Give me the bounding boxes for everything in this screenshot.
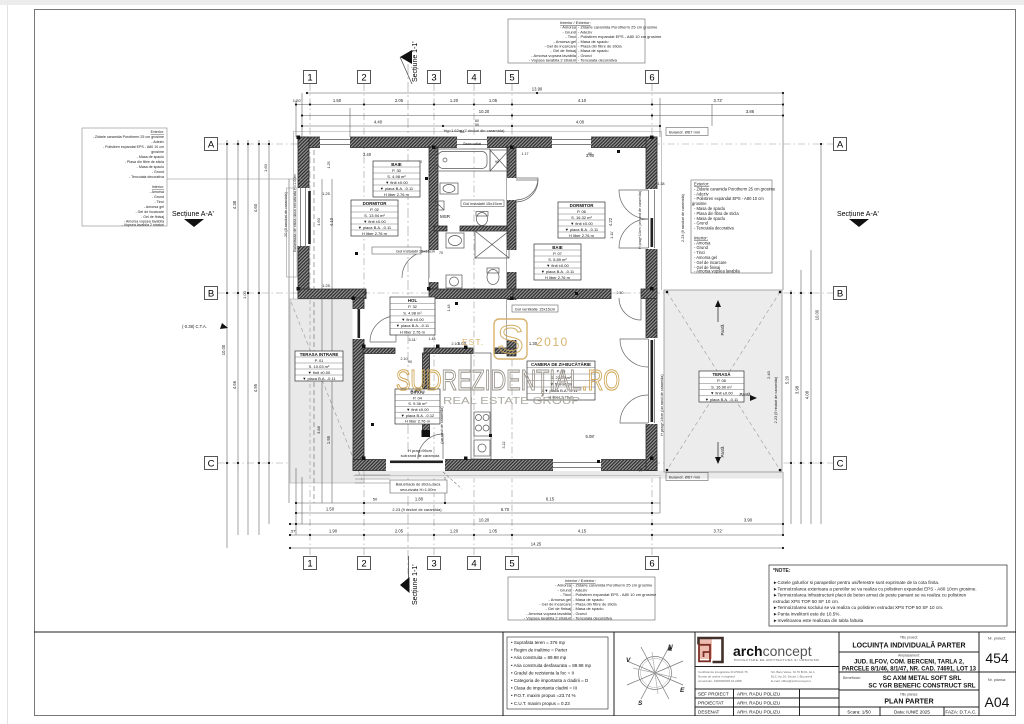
svg-text:3.40: 3.40 <box>363 152 372 157</box>
svg-text:S. 5.89 m²: S. 5.89 m² <box>548 257 567 262</box>
svg-text:ARH. RADU POLIZU: ARH. RADU POLIZU <box>737 692 780 697</box>
svg-text:• C.U.T. maxim propus = 0.23: • C.U.T. maxim propus = 0.23 <box>511 701 570 706</box>
svg-text:- Plasa din fibre de sticla: - Plasa din fibre de sticla <box>125 160 164 164</box>
svg-text:S: S <box>638 700 643 707</box>
svg-text:Data: IUNIE 2025: Data: IUNIE 2025 <box>894 710 930 715</box>
svg-text:EST.: EST. <box>462 337 484 347</box>
svg-text:10.20: 10.20 <box>479 518 490 523</box>
svg-text:▼ finit ±0.00: ▼ finit ±0.00 <box>308 370 331 375</box>
svg-text:1.48: 1.48 <box>429 337 436 341</box>
svg-text:1.17: 1.17 <box>522 152 529 156</box>
svg-text:- Gel de finisaj: - Gel de finisaj <box>141 215 164 219</box>
svg-text:Certificat de inregistrare IF1: Certificat de inregistrare IF170944 76 <box>698 670 748 674</box>
svg-text:V: V <box>626 657 631 664</box>
svg-text:1.05: 1.05 <box>489 529 498 534</box>
svg-text:JUD. ILFOV, COM. BERCENI, TARL: JUD. ILFOV, COM. BERCENI, TARLA 2, <box>854 660 964 666</box>
svg-text:BAIE: BAIE <box>391 162 402 167</box>
svg-text:2.05: 2.05 <box>395 529 404 534</box>
svg-text:S. 16.90 m²: S. 16.90 m² <box>711 384 732 389</box>
svg-text:4.38: 4.38 <box>232 200 237 209</box>
svg-text:14.25: 14.25 <box>531 542 542 547</box>
svg-text:S. 16.32 m²: S. 16.32 m² <box>571 215 592 220</box>
svg-text:S. 4.98 m²: S. 4.98 m² <box>387 174 406 179</box>
svg-text:4.10: 4.10 <box>329 217 334 226</box>
svg-text:- Zidarie caramida Porotherm 2: - Zidarie caramida Porotherm 25 cm grosi… <box>93 135 164 139</box>
svg-text:1.50: 1.50 <box>326 507 335 512</box>
svg-text:▼ placa B.A. -0.11: ▼ placa B.A. -0.11 <box>541 269 575 274</box>
svg-text:▼ finit ±0.00: ▼ finit ±0.00 <box>546 263 569 268</box>
svg-text:Secțiune 1-1': Secțiune 1-1' <box>412 41 419 82</box>
svg-text:80: 80 <box>588 152 592 156</box>
svg-text:S. 4.98 m²: S. 4.98 m² <box>403 311 422 316</box>
svg-text:DORMITOR: DORMITOR <box>570 203 595 208</box>
svg-text:- Tencuiala decorativa: - Tencuiala decorativa <box>694 226 734 231</box>
svg-text:4.95: 4.95 <box>253 383 258 392</box>
svg-text:P. 07: P. 07 <box>553 251 563 256</box>
svg-text:1.50: 1.50 <box>333 98 342 103</box>
svg-text:Gol ventilatie 15x15cm: Gol ventilatie 15x15cm <box>515 307 556 312</box>
svg-text:ARH. RADU POLIZU: ARH. RADU POLIZU <box>737 710 780 715</box>
svg-text:A: A <box>208 140 215 151</box>
svg-text:1.20: 1.20 <box>450 529 459 534</box>
svg-text:P. 01: P. 01 <box>315 358 325 363</box>
svg-text:50: 50 <box>373 497 378 502</box>
svg-text:comertului: J40/8409/06.16.2: comertului: J40/8409/06.16.2008 <box>698 679 742 683</box>
svg-text:PLAN PARTER: PLAN PARTER <box>884 699 933 706</box>
svg-text:PROIECTARE DE ARHITECTURA S: PROIECTARE DE ARHITECTURA SI URBANISM <box>734 658 819 662</box>
svg-text:Geam sablat: Geam sablat <box>463 142 481 146</box>
svg-text:2.23 (9 rinduri de caramida): 2.23 (9 rinduri de caramida) <box>392 507 442 512</box>
svg-text:5: 5 <box>509 73 514 84</box>
svg-text:MSR: MSR <box>440 214 451 219</box>
svg-text:2.10: 2.10 <box>401 357 408 361</box>
svg-text:PARCELE 8/1/46, 8/1/47, NR. CA: PARCELE 8/1/46, 8/1/47, NR. CAD. 74691, … <box>842 667 977 673</box>
svg-text:4.60: 4.60 <box>253 203 258 212</box>
svg-text:- Amorsa: - Amorsa <box>150 190 164 194</box>
svg-text:- Tencuiala decorativa: - Tencuiala decorativa <box>573 616 613 621</box>
svg-text:►Invelitoarea este realizata d: ►Invelitoarea este realizata din tabla f… <box>773 618 864 623</box>
svg-text:1.11': 1.11' <box>610 231 614 239</box>
svg-text:E-mail: office@archconcept.r: E-mail: office@archconcept.ro <box>771 679 812 683</box>
svg-text:H liber 2.76 m: H liber 2.76 m <box>569 233 595 238</box>
svg-text:sub rand de caramida: sub rand de caramida <box>401 453 440 458</box>
svg-text:- Amorsa gel: - Amorsa gel <box>144 205 164 209</box>
svg-text:1.25: 1.25 <box>322 283 331 288</box>
svg-text:A: A <box>837 140 844 151</box>
svg-text:5: 5 <box>509 559 514 570</box>
svg-text:▼ placa B.A. -0.12: ▼ placa B.A. -0.12 <box>401 413 435 418</box>
svg-text:S. 10.03 m²: S. 10.03 m² <box>309 364 330 369</box>
svg-text:▼ finit ±0.00: ▼ finit ±0.00 <box>385 180 408 185</box>
svg-text:►Panta invelitorii este de 10.: ►Panta invelitorii este de 10.5%. <box>773 612 841 617</box>
svg-text:10.00: 10.00 <box>815 309 820 320</box>
svg-text:H liber 2.76 m: H liber 2.76 m <box>384 192 410 197</box>
svg-text:- Grund: - Grund <box>152 170 164 174</box>
svg-text:10.00: 10.00 <box>221 344 226 355</box>
svg-text:▼ placa B.A. -0.11: ▼ placa B.A. -0.11 <box>380 186 414 191</box>
svg-text:A04: A04 <box>985 694 1010 710</box>
svg-text:90: 90 <box>495 160 499 164</box>
svg-text:P. 30: P. 30 <box>392 168 402 173</box>
svg-text:HOL: HOL <box>408 298 418 303</box>
svg-text:.20 (9 randuri de caramida): .20 (9 randuri de caramida) <box>284 191 288 238</box>
svg-text:H prag+14cm (un rand de carami: H prag+14cm (un rand de caramida) <box>638 191 642 249</box>
svg-text:3.22: 3.22 <box>502 442 506 449</box>
svg-text:Secțiune A-A': Secțiune A-A' <box>837 211 879 218</box>
svg-text:- Masa de spaclu: - Masa de spaclu <box>137 155 164 159</box>
svg-text:5.08': 5.08' <box>586 434 595 439</box>
svg-text:Buiandr. Ø67 mm: Buiandr. Ø67 mm <box>669 475 701 480</box>
svg-text:- Tinci: - Tinci <box>154 200 164 204</box>
svg-text:ARH. RADU POLIZU: ARH. RADU POLIZU <box>737 701 780 706</box>
svg-text:3.86: 3.86 <box>746 109 755 114</box>
svg-text:grosime: grosime <box>151 150 164 154</box>
svg-text:▼ finit ±0.00: ▼ finit ±0.00 <box>570 221 593 226</box>
svg-text:▼ placa B.A. -0.11: ▼ placa B.A. -0.11 <box>358 225 392 230</box>
svg-text:Secțiune 1-1': Secțiune 1-1' <box>412 564 419 605</box>
svg-text:Pantă: Pantă <box>720 324 725 336</box>
svg-text:▼ finit ±0.00: ▼ finit ±0.00 <box>710 391 733 396</box>
svg-text:▼ finit ±0.00: ▼ finit ±0.00 <box>401 317 424 322</box>
svg-text:1.20: 1.20 <box>450 98 459 103</box>
svg-text:80: 80 <box>363 291 367 295</box>
svg-text:• Categoria de importanta a cl: • Categoria de importanta a cladirii = D <box>511 678 589 683</box>
svg-text:4: 4 <box>471 73 476 84</box>
svg-text:3.98: 3.98 <box>795 385 800 394</box>
svg-text:Pantă: Pantă <box>720 446 725 458</box>
svg-text:BAIE: BAIE <box>552 245 563 250</box>
svg-text:S: S <box>497 318 524 362</box>
svg-text:• Suprafata teren = 376 mp: • Suprafata teren = 376 mp <box>511 640 565 645</box>
svg-text:2010: 2010 <box>536 335 569 349</box>
svg-text:extrudat XPS TOP 50 SF 10 cm.: extrudat XPS TOP 50 SF 10 cm. <box>773 599 839 604</box>
svg-text:Pantă: Pantă <box>740 392 752 397</box>
svg-text:2: 2 <box>361 559 366 570</box>
svg-text:*NOTE:: *NOTE: <box>773 568 791 574</box>
svg-text:- Vopsea lavabila 2 straturi: - Vopsea lavabila 2 straturi <box>524 616 571 621</box>
svg-text:3.72': 3.72' <box>714 98 723 103</box>
svg-text:454: 454 <box>985 650 1009 666</box>
svg-text:1.48: 1.48 <box>447 305 451 312</box>
svg-text:1.20': 1.20' <box>293 98 302 103</box>
svg-text:H liber 2.76 m: H liber 2.76 m <box>545 275 571 280</box>
svg-text:▼ placa B.A. -0.11: ▼ placa B.A. -0.11 <box>396 323 430 328</box>
svg-text:Str. Baru Varse, Nr.76 Bl.01,: Str. Baru Varse, Nr.76 Bl.01, Et.1, <box>771 670 816 674</box>
svg-text:SC YGR BENEFIC CONSTRUCT SRL: SC YGR BENEFIC CONSTRUCT SRL <box>868 683 975 690</box>
svg-text:►Termoizolarea infrastructurii: ►Termoizolarea infrastructurii placii de… <box>773 593 967 598</box>
svg-text:1.00: 1.00 <box>242 290 247 299</box>
svg-text:Nr. proiect:: Nr. proiect: <box>988 637 1006 641</box>
svg-text:6.70: 6.70 <box>501 507 510 512</box>
svg-text:- Vopsea lavabila 2 straturi: - Vopsea lavabila 2 straturi <box>529 58 576 63</box>
svg-text:SC AXM METAL SOFT SRL: SC AXM METAL SOFT SRL <box>883 675 962 682</box>
svg-text:2: 2 <box>361 73 366 84</box>
svg-text:Titlu plansa:: Titlu plansa: <box>900 693 918 697</box>
svg-text:H prag+14cm (un rand de carami: H prag+14cm (un rand de caramida) <box>660 374 664 436</box>
svg-text:Scara: 1/50: Scara: 1/50 <box>847 710 871 715</box>
svg-text:Gol instalatii 15x15cm: Gol instalatii 15x15cm <box>463 201 503 206</box>
svg-text:60: 60 <box>460 130 464 134</box>
svg-text:6.15: 6.15 <box>546 497 555 502</box>
svg-text:1.38: 1.38 <box>658 182 665 186</box>
svg-text:Beneficiar:: Beneficiar: <box>843 676 861 680</box>
svg-text:B: B <box>208 289 214 300</box>
svg-text:75: 75 <box>639 468 643 472</box>
svg-text:4.08: 4.08 <box>805 390 810 399</box>
svg-text:(un rand de caramida): (un rand de caramida) <box>440 406 444 444</box>
svg-text:- Masa de spaclu: - Masa de spaclu <box>137 165 164 169</box>
svg-text:- Adeziv: - Adeziv <box>151 140 164 144</box>
svg-text:- Amorsa vopsea lavabila: - Amorsa vopsea lavabila <box>694 269 740 274</box>
svg-text:3.72': 3.72' <box>714 529 723 534</box>
svg-text:• Gradul de rezistenta la foc: • Gradul de rezistenta la foc = II <box>511 670 574 675</box>
svg-text:3.11': 3.11' <box>408 337 416 342</box>
svg-text:►Termoizolarea exterioara a pe: ►Termoizolarea exterioara a peretilor se… <box>773 586 977 591</box>
svg-text:- Vopsea lavabila 2 straturi: - Vopsea lavabila 2 straturi <box>122 223 165 227</box>
svg-text:▼ placa B.A. -0.11: ▼ placa B.A. -0.11 <box>565 227 599 232</box>
svg-text:13.90: 13.90 <box>532 87 543 92</box>
svg-text:SUDREZIDENȚIAL.RO: SUDREZIDENȚIAL.RO <box>396 365 620 397</box>
svg-text:3.88: 3.88 <box>316 425 321 434</box>
svg-text:• Aria construita = 89.98 mp: • Aria construita = 89.98 mp <box>511 655 567 660</box>
svg-text:10.20: 10.20 <box>479 109 490 114</box>
svg-text:- Tencuiala decorativa: - Tencuiala decorativa <box>129 175 164 179</box>
svg-text:Hg=1.62m (7 rinduri din carami: Hg=1.62m (7 rinduri din caramida) <box>444 128 505 133</box>
svg-text:Buiandr. Ø67 mm: Buiandr. Ø67 mm <box>669 130 701 135</box>
svg-text:Interior:: Interior: <box>152 185 164 189</box>
svg-text:90: 90 <box>408 360 412 364</box>
svg-text:1.90: 1.90 <box>329 529 338 534</box>
svg-text:1: 1 <box>307 73 312 84</box>
svg-text:4.15: 4.15 <box>578 529 587 534</box>
svg-text:P. 08: P. 08 <box>717 378 727 383</box>
svg-text:archconcept: archconcept <box>733 643 812 659</box>
svg-text:1.95: 1.95 <box>326 435 331 444</box>
svg-text:70: 70 <box>439 251 443 255</box>
svg-text:2.10: 2.10 <box>452 342 459 346</box>
svg-text:4.40: 4.40 <box>374 120 383 125</box>
svg-text:FAZA: D.T.A.C.: FAZA: D.T.A.C. <box>945 710 976 715</box>
svg-text:LOCUINȚA INDIVIDUALĂ PARTER: LOCUINȚA INDIVIDUALĂ PARTER <box>852 641 965 650</box>
svg-text:▼ placa B.A. -0.11: ▼ placa B.A. -0.11 <box>705 397 739 402</box>
svg-text:4.10: 4.10 <box>578 98 587 103</box>
svg-text:4.00: 4.00 <box>576 120 585 125</box>
svg-text:S. 13.94 m²: S. 13.94 m² <box>364 213 385 218</box>
svg-text:P. 06: P. 06 <box>577 209 587 214</box>
svg-text:►Termoizolarea soclului se va: ►Termoizolarea soclului se va realiza cu… <box>773 605 943 610</box>
svg-text:2.23 (9 randuri de caramida): 2.23 (9 randuri de caramida) <box>681 193 685 242</box>
svg-text:6: 6 <box>649 73 654 84</box>
svg-text:S. 9.36 m²: S. 9.36 m² <box>408 401 427 406</box>
svg-text:Exterior:: Exterior: <box>151 130 164 134</box>
svg-text:▼ finit ±0.00: ▼ finit ±0.00 <box>406 407 429 412</box>
svg-text:Amplasament:: Amplasament: <box>898 654 920 658</box>
svg-text:• P.O.T. maxim propus =23.74 %: • P.O.T. maxim propus =23.74 % <box>511 693 576 698</box>
svg-text:DORMITOR: DORMITOR <box>363 201 388 206</box>
svg-text:REAL ESTATE GROUP: REAL ESTATE GROUP <box>443 395 580 407</box>
svg-text:2.50: 2.50 <box>617 291 624 295</box>
svg-text:C: C <box>837 459 844 470</box>
svg-text:1.25: 1.25 <box>327 162 331 169</box>
svg-text:3: 3 <box>431 73 436 84</box>
svg-text:H liber 2.76 m: H liber 2.76 m <box>362 231 388 236</box>
svg-text:- Grund: - Grund <box>152 195 164 199</box>
svg-text:E: E <box>680 687 685 694</box>
svg-text:4.22: 4.22 <box>608 217 613 226</box>
svg-text:Nr. plansa:: Nr. plansa: <box>988 678 1006 682</box>
svg-text:PROIECTAT: PROIECTAT <box>698 701 724 706</box>
svg-text:4: 4 <box>471 559 476 570</box>
svg-text:2.40: 2.40 <box>766 370 771 379</box>
svg-text:P. 32: P. 32 <box>408 304 418 309</box>
svg-text:N: N <box>668 644 673 651</box>
svg-text:DESENAT: DESENAT <box>698 710 720 715</box>
svg-text:ELS, Ap.16, Sector 1 Bucure: ELS, Ap.16, Sector 1 Bucuresti <box>771 675 813 679</box>
svg-text:1.60: 1.60 <box>316 217 321 226</box>
svg-text:1.05: 1.05 <box>489 98 498 103</box>
svg-text:1.25: 1.25 <box>322 191 331 196</box>
svg-text:securizata H=1.00m: securizata H=1.00m <box>400 487 436 492</box>
svg-text:Secțiune A-A': Secțiune A-A' <box>172 211 214 218</box>
svg-text:1: 1 <box>307 559 312 570</box>
svg-text:2.23 (9 rinduri de caramida): 2.23 (9 rinduri de caramida) <box>774 376 778 423</box>
svg-text:.57': .57' <box>290 529 297 534</box>
svg-text:▼ placa B.A. -0.11: ▼ placa B.A. -0.11 <box>302 376 336 381</box>
svg-text:C: C <box>208 459 215 470</box>
svg-text:►Cotele golurilor si parapetil: ►Cotele golurilor si parapetilor pentru … <box>773 580 939 585</box>
svg-text:1.80: 1.80 <box>415 497 424 502</box>
svg-text:H liber 2.76 m: H liber 2.76 m <box>400 329 426 334</box>
svg-text:50: 50 <box>475 123 479 127</box>
svg-text:5.20: 5.20 <box>785 375 790 384</box>
svg-text:Titlu proiect:: Titlu proiect: <box>900 636 918 640</box>
svg-text:3: 3 <box>431 559 436 570</box>
svg-text:3.90: 3.90 <box>744 518 753 523</box>
svg-text:P. 02: P. 02 <box>370 207 380 212</box>
svg-text:- Polistiren expandat EPS - A8: - Polistiren expandat EPS - A80 10 cm <box>103 145 164 149</box>
svg-text:H liber 2.76 m: H liber 2.76 m <box>405 419 431 424</box>
svg-text:90: 90 <box>653 329 657 333</box>
svg-text:- Gel de incarcare: - Gel de incarcare <box>135 210 164 214</box>
svg-text:2.05: 2.05 <box>395 98 404 103</box>
svg-text:B: B <box>837 289 843 300</box>
svg-text:Numar de ordine in regist: Numar de ordine in registrul <box>698 675 735 679</box>
svg-text:• Regim de inaltime = Parter: • Regim de inaltime = Parter <box>511 648 568 653</box>
svg-text:▼ finit ±0.00: ▼ finit ±0.00 <box>363 219 386 224</box>
svg-text:TERASA INTRARE: TERASA INTRARE <box>300 352 339 357</box>
svg-text:Balustrada de sticla daca secu: Balustrada de sticla daca securizata H=1… <box>293 174 297 251</box>
svg-text:• Aria construita desfasurata: • Aria construita desfasurata = 89.98 mp <box>511 663 591 668</box>
svg-text:(-0.38) C.T.A.: (-0.38) C.T.A. <box>182 324 207 329</box>
svg-text:- Tencuiala decorativa: - Tencuiala decorativa <box>578 58 618 63</box>
svg-text:SEF PROIECT: SEF PROIECT <box>698 692 729 697</box>
svg-text:1.60: 1.60 <box>263 163 268 172</box>
svg-text:• Clasa de importanta cladirii: • Clasa de importanta cladirii = III <box>511 686 577 691</box>
svg-text:Balustrada de sticla,daca: Balustrada de sticla,daca <box>396 482 441 487</box>
svg-text:Gol instalatii 15x15cm: Gol instalatii 15x15cm <box>396 249 436 254</box>
svg-text:TERASĂ: TERASĂ <box>712 372 731 377</box>
svg-text:4.66: 4.66 <box>232 380 237 389</box>
svg-text:6: 6 <box>649 559 654 570</box>
